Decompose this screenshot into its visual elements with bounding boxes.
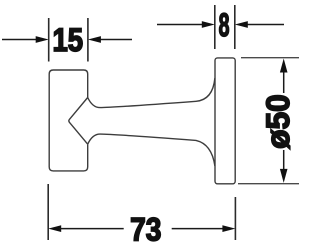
dim 15: left arrow line (2, 39, 37, 41)
dim 8: right arrowhead (235, 21, 248, 28)
dim 15: right arrow line (100, 39, 132, 41)
dim 73: right dim line segment (172, 228, 225, 230)
disc (hook face) outline (215, 58, 235, 184)
svg-text:73: 73 (130, 213, 161, 248)
dim o50: upper dim line segment (283, 70, 285, 94)
dim 73: left extension line (47, 184, 49, 240)
dim 73: left dim line segment (59, 228, 124, 230)
dim 73: right extension line (234, 197, 236, 240)
stem top edge (88, 78, 215, 108)
dim 8: left extension line (214, 5, 216, 49)
svg-text:8: 8 (219, 7, 230, 43)
dim 15: left extension line (48, 18, 50, 62)
dim 8: left arrow line (157, 24, 203, 26)
dim 73: left arrowhead (48, 225, 61, 232)
dim 15: left arrowhead (36, 36, 49, 43)
dim o50: top arrowhead (280, 59, 288, 73)
dim o50: lower dim line segment (283, 150, 285, 172)
wall plate outline (49, 70, 87, 171)
dim o50: top extension line (241, 57, 299, 59)
stem bottom edge (88, 134, 215, 166)
dim 8: right extension line (234, 5, 236, 49)
dim o50: bottom extension line (238, 183, 299, 185)
dim o50: bottom arrowhead (280, 169, 288, 183)
dim 15: right arrowhead (88, 36, 101, 43)
dim 8: left arrowhead (202, 21, 215, 28)
dim 15: right extension line (87, 18, 89, 62)
svg-text:ø50: ø50 (260, 94, 296, 149)
dim 73: right arrowhead (222, 225, 235, 232)
svg-text:15: 15 (52, 23, 83, 58)
dim 8: right arrow line (247, 24, 285, 26)
stem cone notch (V intersection with plate) (69, 98, 88, 145)
